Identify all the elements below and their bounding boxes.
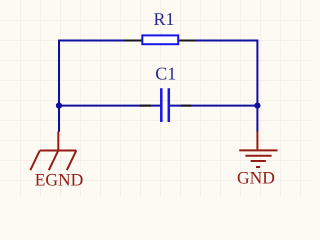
wire middle left segment: [59, 105, 161, 107]
wire right vertical: [256, 40, 258, 132]
svg-text:GND: GND: [237, 168, 275, 188]
svg-text:EGND: EGND: [35, 170, 84, 190]
svg-text:R1: R1: [153, 9, 174, 29]
ground GND: [239, 132, 277, 168]
resistor R1: [125, 35, 196, 44]
junction node left: [56, 103, 62, 109]
wire top horizontal: [59, 40, 257, 42]
wire left vertical: [58, 40, 60, 132]
wire middle right segment: [169, 105, 258, 107]
svg-text:C1: C1: [155, 64, 176, 84]
capacitor C1: [140, 88, 192, 122]
junction node right: [254, 103, 260, 109]
ground EGND: [30, 132, 76, 171]
